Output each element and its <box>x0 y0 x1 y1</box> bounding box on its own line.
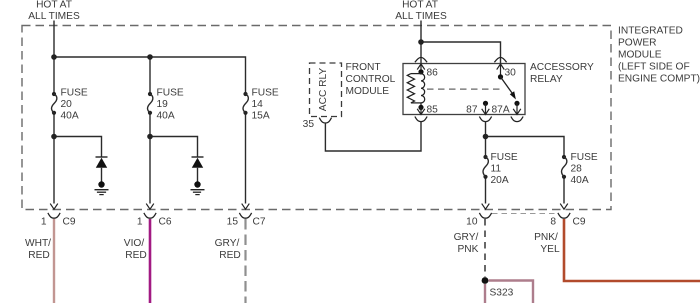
svg-text:ACC RLY: ACC RLY <box>318 68 329 112</box>
svg-text:GRY/: GRY/ <box>215 238 240 249</box>
svg-text:GRY/: GRY/ <box>454 232 479 243</box>
svg-text:RED: RED <box>125 250 147 261</box>
relay pin 30: arrow up + dot <box>497 64 505 77</box>
ground G1 <box>95 181 109 194</box>
svg-text:S323: S323 <box>490 288 514 299</box>
integrated power module dashed box <box>22 26 611 210</box>
relay pin 87A: dot + arrow down <box>514 101 519 106</box>
connector arc below relay pin 87A <box>511 117 523 122</box>
wire: FCM pin 35 to relay pin 85 <box>325 122 421 152</box>
svg-text:30: 30 <box>505 68 517 79</box>
svg-text:PNK: PNK <box>458 244 479 255</box>
wire: branch to diode D1 <box>54 137 102 158</box>
svg-text:15A: 15A <box>252 110 270 121</box>
wire GRY/RED (dashed) <box>244 219 246 303</box>
svg-text:ALL TIMES: ALL TIMES <box>395 11 447 22</box>
svg-text:10: 10 <box>466 217 478 228</box>
wire: drop to fuse 19 <box>149 57 151 94</box>
connector arcs below border <box>48 213 570 218</box>
relay pin 85: dot + arrow down <box>418 105 423 110</box>
svg-text:ENGINE COMPT): ENGINE COMPT) <box>618 74 700 85</box>
fuse F19 <box>148 88 184 122</box>
svg-text:MODULE: MODULE <box>618 50 662 61</box>
wire PNK continuing down from S323 <box>484 284 486 303</box>
svg-text:FUSE: FUSE <box>157 88 184 99</box>
svg-text:ALL TIMES: ALL TIMES <box>28 11 80 22</box>
svg-text:C6: C6 <box>159 217 172 228</box>
svg-text:40A: 40A <box>571 175 589 186</box>
arrow exit wire 2 <box>146 204 154 210</box>
relay internal dashed linkage <box>427 88 504 90</box>
ground G2 <box>191 181 205 194</box>
svg-text:14: 14 <box>252 99 264 110</box>
fuse F20 <box>52 88 88 122</box>
wire: branch to relay pin 30 <box>421 42 501 64</box>
svg-text:FUSE: FUSE <box>61 88 88 99</box>
diode D2 <box>192 157 204 182</box>
arrow exit wire 5 <box>560 204 568 210</box>
wire: fuse 19 output down to connector exit <box>149 113 151 204</box>
connector arc at FCM pin 35 <box>319 118 331 123</box>
junction: fuse 20 output / diode branch <box>51 134 57 140</box>
svg-text:FUSE: FUSE <box>571 152 598 163</box>
svg-text:C9: C9 <box>63 217 76 228</box>
exit arrows at bottom border <box>50 204 568 210</box>
svg-text:28: 28 <box>571 164 583 175</box>
svg-text:FRONT: FRONT <box>346 62 381 73</box>
arrow exit wire 1 <box>50 204 58 210</box>
svg-text:POWER: POWER <box>618 38 657 49</box>
svg-text:HOT AT: HOT AT <box>402 0 438 11</box>
connector C7 pin 15 arc <box>239 213 251 218</box>
diode D1 <box>96 157 108 182</box>
junction: feed bus at fuse 20 <box>51 54 57 60</box>
connector C9 pin 1 arc <box>48 213 60 218</box>
junction: feed bus at fuse 19 <box>147 54 153 60</box>
connector pin 10 arc <box>479 213 491 218</box>
wire: fuse 14 output down to connector exit <box>245 113 247 204</box>
svg-text:YEL: YEL <box>540 244 560 255</box>
wire: bus to fuse 19 and fuse 14 <box>54 57 246 94</box>
svg-text:HOT AT: HOT AT <box>36 0 72 11</box>
svg-text:C9: C9 <box>573 217 586 228</box>
wire: relay pin 87 down to fuse 11, branch to fuse 28 <box>486 121 565 204</box>
svg-text:15: 15 <box>227 217 239 228</box>
relay coil between pins 86 and 85 <box>407 72 424 108</box>
svg-text:(LEFT SIDE OF: (LEFT SIDE OF <box>618 62 690 73</box>
svg-text:20A: 20A <box>491 175 509 186</box>
svg-text:RED: RED <box>28 250 50 261</box>
svg-text:RED: RED <box>219 250 241 261</box>
wire PNK branch right from S323 <box>489 281 534 303</box>
accessory relay box <box>403 64 525 115</box>
connector C6 pin 1 arc <box>144 213 156 218</box>
label: INTEGRATED POWER MODULE <box>618 26 700 85</box>
svg-text:ACCESSORY: ACCESSORY <box>530 62 594 73</box>
wire: branch to diode D2 <box>150 137 198 158</box>
connector arc below relay pin 87 <box>479 117 491 122</box>
wire: fuse 20 output down to connector exit <box>53 113 55 204</box>
junction: fuse 19 output / diode branch <box>147 134 153 140</box>
svg-text:C7: C7 <box>253 217 266 228</box>
svg-text:RELAY: RELAY <box>530 74 563 85</box>
arrow exit wire 3 <box>242 204 250 210</box>
svg-text:1: 1 <box>41 217 47 228</box>
label: HOT AT ALL TIMES (relay feed) <box>395 0 447 22</box>
label: ACCESSORY RELAY <box>530 62 594 85</box>
fuse F14 <box>243 88 279 122</box>
fuse F11 <box>483 152 518 186</box>
wire PNK/YEL <box>564 219 700 281</box>
relay pin 86: arrow up + dot <box>417 64 425 72</box>
svg-text:INTEGRATED: INTEGRATED <box>618 26 683 37</box>
wire VIO/RED <box>149 219 152 303</box>
svg-text:FUSE: FUSE <box>252 88 279 99</box>
svg-text:VIO/: VIO/ <box>124 238 145 249</box>
connector arc above relay pin 86 <box>415 57 427 62</box>
svg-text:35: 35 <box>303 119 315 130</box>
label: HOT AT ALL TIMES (left feed) <box>28 0 80 22</box>
svg-text:86: 86 <box>427 68 439 79</box>
svg-text:87: 87 <box>466 105 478 116</box>
svg-text:40A: 40A <box>61 110 79 121</box>
svg-text:20: 20 <box>61 99 73 110</box>
wire GRY/PNK (dashed) down to splice <box>484 219 486 277</box>
wire: relay feed into box <box>420 21 422 64</box>
svg-text:85: 85 <box>427 105 439 116</box>
relay pin 87: dot + arrow down <box>483 101 488 106</box>
svg-text:FUSE: FUSE <box>491 152 518 163</box>
front control module dashed box <box>310 63 342 117</box>
junction: relay feed split to pin 30 <box>418 39 424 45</box>
svg-text:11: 11 <box>491 164 502 175</box>
junction dot at pin 87 branch <box>483 134 489 140</box>
connector pin/number labels <box>41 217 586 228</box>
dashed link between pin10 and pin8 connectors <box>492 213 557 215</box>
svg-text:40A: 40A <box>157 110 175 121</box>
svg-text:87A: 87A <box>492 105 510 116</box>
connector arc above relay pin 30 <box>494 57 506 62</box>
svg-text:CONTROL: CONTROL <box>346 74 396 85</box>
connector C9 pin 8 arc <box>558 213 570 218</box>
splice S323 <box>482 277 489 284</box>
fuse F28 <box>562 152 598 186</box>
arrow exit wire 4 <box>482 204 490 210</box>
svg-text:MODULE: MODULE <box>346 86 390 97</box>
svg-text:PNK/: PNK/ <box>534 232 558 243</box>
connector arc below relay pin 85 <box>415 117 427 122</box>
svg-text:19: 19 <box>157 99 169 110</box>
wire WHT/RED <box>53 219 55 303</box>
wire: left feed into box down to fuse 20 <box>53 21 55 95</box>
label: FRONT CONTROL MODULE <box>346 62 396 97</box>
svg-text:WHT/: WHT/ <box>25 238 51 249</box>
svg-text:8: 8 <box>550 217 556 228</box>
relay switch blade from 30 to 87A <box>501 77 514 95</box>
svg-text:1: 1 <box>137 217 143 228</box>
